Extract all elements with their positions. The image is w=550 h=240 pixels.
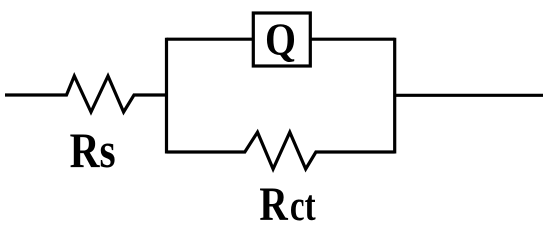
- svg-text:Rs: Rs: [70, 122, 116, 178]
- svg-text:Q: Q: [265, 14, 296, 64]
- svg-text:R: R: [259, 178, 288, 231]
- svg-text:ct: ct: [290, 183, 316, 230]
